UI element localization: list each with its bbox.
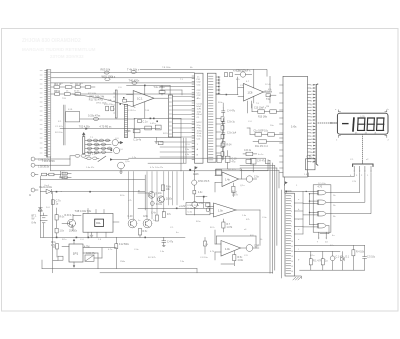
label IC102 <box>248 90 253 94</box>
wire rail y179.5 <box>40 179 145 181</box>
resistor R105 on bus 2 <box>105 78 110 81</box>
resistor R150 vertical <box>204 237 207 254</box>
wire CN2 pin1 down-left <box>308 173 354 177</box>
svg-text:9: 9 <box>291 236 292 238</box>
input jack P4 <box>31 188 38 192</box>
svg-text:C.0x 1u4: C.0x 1u4 <box>227 133 237 135</box>
svg-text:0Rnd: 0Rnd <box>197 114 203 116</box>
capacitor C205 <box>222 119 225 127</box>
diode D101 <box>40 189 61 193</box>
label box above QA <box>257 161 266 163</box>
wire y208.3 <box>138 208 213 210</box>
opamp IC101a wires <box>127 85 169 118</box>
small comps below box <box>158 141 163 144</box>
svg-text:2SA10x: 2SA10x <box>69 229 78 232</box>
junction dots input <box>120 97 125 105</box>
svg-text:R.10x: R.10x <box>156 204 163 206</box>
svg-text:C.47u: C.47u <box>167 242 174 244</box>
transistor QA <box>246 176 256 182</box>
bottom right rail top <box>294 245 364 270</box>
box pair lower <box>243 152 257 155</box>
wires V101 to ST1 <box>173 97 195 138</box>
resistor F112 <box>115 237 118 268</box>
input jack P3 <box>31 172 38 176</box>
vertical x52.7 <box>52 192 54 273</box>
opamp A triangle <box>222 172 239 187</box>
fuse F101 <box>70 154 90 157</box>
svg-text:R1x 47k C.4: R1x 47k C.4 <box>255 146 268 148</box>
bracket right of U1 <box>316 84 318 165</box>
label C206 <box>227 133 237 135</box>
box IC6 near U1 bottom <box>306 159 316 170</box>
label IC101a <box>137 96 143 100</box>
opamp C wires <box>215 230 246 260</box>
label IC6 <box>307 156 313 159</box>
label Q4 <box>199 203 204 205</box>
capacitor C110 top <box>225 73 233 77</box>
label C107 <box>56 200 62 206</box>
svg-text:R.9 10x: R.9 10x <box>55 132 63 134</box>
svg-text:1.02 20.5x: 1.02 20.5x <box>38 166 50 169</box>
wires step into strips upper <box>160 87 195 96</box>
label C32 <box>367 257 376 259</box>
IC103 inner box <box>95 219 104 226</box>
capacitor C143 below rail <box>162 237 166 246</box>
label F112 <box>119 244 130 246</box>
resistor R33 vertical <box>352 245 355 270</box>
svg-text:MARGAIG TIUDRID RETEMITLUM: MARGAIG TIUDRID RETEMITLUM <box>22 47 96 52</box>
resistor R143 vertical <box>138 229 141 238</box>
J2 left rail <box>282 177 285 278</box>
svg-text:13: 13 <box>291 256 293 258</box>
svg-text:C.4 47u: C.4 47u <box>227 111 236 113</box>
resistor R121 <box>266 94 276 97</box>
DS1 minus sign <box>343 123 348 125</box>
svg-text:1O0u: 1O0u <box>197 130 203 132</box>
vertical feed x223 <box>222 103 224 160</box>
xor gate G4 <box>314 223 329 228</box>
DS1 corner labels <box>335 109 390 142</box>
rail y268.6 <box>42 260 197 273</box>
opamp B wires <box>208 206 260 245</box>
box above QA <box>251 159 257 173</box>
label C204 <box>227 111 236 113</box>
opamp IC102 triangle <box>244 84 264 102</box>
svg-text:2OuL: 2OuL <box>197 133 203 135</box>
svg-text:1C.4x: 1C.4x <box>265 84 272 86</box>
label top mid <box>236 70 251 73</box>
U1 right pin arrowheads <box>313 84 316 162</box>
vertical through Q3 Q4 <box>193 171 195 215</box>
DS1 digit 1 <box>352 118 355 131</box>
resistor row lower left <box>133 130 140 133</box>
svg-text:F.5kΩ 1.04x: F.5kΩ 1.04x <box>188 205 201 207</box>
svg-text:F.12 500x: F.12 500x <box>119 244 130 246</box>
label RB <box>232 192 238 197</box>
xor gate G3 <box>314 211 331 216</box>
wire dotted bracket to display <box>318 122 337 124</box>
svg-text:C.N: C.N <box>352 181 356 183</box>
svg-text:1C6: 1C6 <box>248 90 253 94</box>
vertical drops from rail y171 <box>129 172 184 220</box>
label cluster1 <box>254 108 268 119</box>
resistor on input <box>123 99 127 102</box>
wire opamp C loop <box>217 236 257 266</box>
vertical x145.2 <box>144 175 146 210</box>
component row A (top-left) resistor chain <box>51 86 95 89</box>
CN2 pin arrowheads <box>354 171 372 173</box>
label C143 <box>167 242 174 244</box>
junction dot above opamp <box>144 85 146 87</box>
label IC5 <box>318 187 323 189</box>
junction blob rail <box>189 169 191 171</box>
junction dots xor inputs <box>285 191 310 214</box>
svg-text:1.0x: 1.0x <box>225 248 230 251</box>
svg-text:Q.10x: Q.10x <box>166 198 173 200</box>
wire y191.7 with junctions <box>56 191 146 193</box>
label RD <box>238 257 244 262</box>
junction dot x203.7 <box>196 196 207 209</box>
J2 right stubs <box>294 191 303 234</box>
resistor R140 vertical <box>161 185 164 191</box>
capacitor C206 <box>222 130 225 138</box>
label C142 <box>167 214 172 216</box>
label row lower left <box>126 131 142 142</box>
svg-text:R.50x 1.0x: R.50x 1.0x <box>188 208 199 210</box>
label rail <box>59 177 69 180</box>
ST1 pin name rows <box>197 76 203 156</box>
U1 right pin labels <box>311 85 315 164</box>
resistors below opamp A <box>232 183 235 197</box>
wire dotted display to connector <box>362 134 364 161</box>
svg-text:4.7x 1.0x 47x: 4.7x 1.0x 47x <box>150 167 164 169</box>
label Q2 <box>166 198 173 200</box>
svg-text:1C 4.0x: 1C 4.0x <box>318 183 326 185</box>
transistor Q103 <box>112 140 123 146</box>
connector J101 left edge strip <box>40 70 51 157</box>
resistor inside box 2 <box>145 126 152 130</box>
svg-text:1.07k: 1.07k <box>227 227 233 229</box>
svg-text:R.04: R.04 <box>227 145 233 147</box>
svg-text:R.50 470.5: R.50 470.5 <box>198 181 210 183</box>
svg-text:16: 16 <box>291 271 293 273</box>
label C140 <box>156 204 163 206</box>
svg-text:C.02 47u: C.02 47u <box>86 253 96 255</box>
DS1 digit 8 (tens) <box>367 118 374 130</box>
svg-text:1uRb: 1uRb <box>193 173 199 176</box>
svg-text:Ow.4: Ow.4 <box>44 185 50 187</box>
svg-text:R11 T03 470x: R11 T03 470x <box>89 100 104 102</box>
svg-text:R.1 4.7k: R.1 4.7k <box>313 261 322 263</box>
J2 flag <box>285 182 288 186</box>
svg-text:T 4b 10k x: T 4b 10k x <box>127 67 140 71</box>
svg-text:T40 470x: T40 470x <box>129 79 141 83</box>
bus bar V103 <box>114 90 118 118</box>
label R105 <box>102 74 116 78</box>
svg-text:C.5x: C.5x <box>307 156 313 159</box>
LCD display DS1 <box>337 113 388 134</box>
connector strip ST2 <box>207 73 216 162</box>
transistor Q104 <box>114 148 120 154</box>
IC104 box <box>69 244 83 262</box>
svg-text:C.05 1u: C.05 1u <box>128 110 136 112</box>
IC U1 A/D converter body <box>283 76 308 177</box>
label P4 <box>29 194 31 197</box>
switch S101 row <box>85 156 106 161</box>
label left of Q1 <box>138 191 140 193</box>
resistor R31 vertical <box>309 252 312 271</box>
label R32 <box>325 261 328 263</box>
svg-text:C.1u: C.1u <box>143 121 149 123</box>
svg-text:C1x 100P 10u: C1x 100P 10u <box>254 130 269 132</box>
label F101 <box>88 153 97 156</box>
label R104 <box>127 67 140 71</box>
svg-text:1.4x: 1.4x <box>225 179 230 182</box>
transistor QC <box>246 245 259 252</box>
TB1 text rows <box>188 205 201 213</box>
svg-text:Q.10x: Q.10x <box>156 193 163 195</box>
connector J2 bottom right strip <box>285 193 294 276</box>
battery BT1 <box>40 213 47 237</box>
zener ZD1 <box>39 208 43 211</box>
transistor Q3 small <box>192 180 197 185</box>
rail y237.4 <box>40 237 185 239</box>
svg-text:C1P: C1P <box>197 90 202 92</box>
labels row B <box>54 91 105 102</box>
IC104 bottom pin <box>73 262 75 268</box>
resistor column right of ST2 <box>221 117 224 160</box>
wire CN2 pin4 to xor3 <box>331 173 371 214</box>
resistor chain row 2 <box>85 143 111 146</box>
transistor Q107 <box>62 216 81 232</box>
svg-text:CNb: CNb <box>287 191 292 193</box>
J2 pin number text column <box>291 196 293 273</box>
U1 right pin stubs <box>308 85 311 162</box>
label below ST1 <box>193 173 199 176</box>
vertical x40.4 low <box>39 213 41 237</box>
main rail upper y158.2 <box>129 158 266 163</box>
label IC103 <box>75 210 102 225</box>
opamp A wires feedback <box>215 151 247 193</box>
label R33 <box>356 252 365 254</box>
svg-text:+1.2V: +1.2V <box>179 205 186 208</box>
connector strip ST1 <box>192 73 203 163</box>
opamp B triangle <box>214 203 237 217</box>
transistor Q106a <box>143 219 152 228</box>
capacitor C103 pair <box>106 106 114 111</box>
resistor row P3 path <box>42 171 65 178</box>
wires opamp area verticals <box>248 76 271 113</box>
xor inputs from bus <box>286 191 314 227</box>
assorted value labels <box>46 67 369 263</box>
box lower2 <box>246 160 252 164</box>
svg-text:R.15: R.15 <box>163 133 168 135</box>
svg-text:C.1x 4u: C.1x 4u <box>133 140 142 142</box>
svg-text:T.08 C.04x 7.6x: T.08 C.04x 7.6x <box>75 210 92 213</box>
label R106 <box>129 79 141 83</box>
wires into ST1 lower left <box>160 142 195 157</box>
svg-text:1.0x: 1.0x <box>218 209 223 212</box>
svg-text:R11 470x: R11 470x <box>104 104 114 106</box>
svg-text:R03 10k: R03 10k <box>101 68 111 72</box>
IC5 bottom labels <box>317 242 328 244</box>
XOR block IC5 box <box>313 185 331 232</box>
svg-text:bF1C: bF1C <box>197 122 203 124</box>
junction dots row inside box <box>150 118 158 123</box>
label C105 <box>88 115 101 118</box>
resistor inside box 1 <box>138 120 142 123</box>
svg-text:2: 2 <box>291 201 292 203</box>
feedback resistor RA <box>225 156 230 162</box>
resistor R laux left of opamp B <box>206 203 210 212</box>
svg-text:15: 15 <box>291 266 293 268</box>
capacitor C107 <box>51 200 54 205</box>
opamp IC101a triangle <box>133 91 154 106</box>
bus bends into rails top <box>240 160 279 171</box>
wires IC104 area <box>53 246 117 268</box>
arrow into wire y159.5 <box>110 158 129 160</box>
svg-text:Cmn1: Cmn1 <box>197 103 203 105</box>
svg-text:C.R: C.R <box>240 85 244 87</box>
label IC104 <box>73 246 90 256</box>
svg-text:0.4x: 0.4x <box>32 222 37 225</box>
box with diagonal CX <box>85 255 94 261</box>
label CX <box>86 253 96 255</box>
transistor Q105 <box>118 162 125 173</box>
svg-text:4.70 R0 xx: 4.70 R0 xx <box>99 125 112 128</box>
svg-text:R.30 4.7k: R.30 4.7k <box>65 215 76 217</box>
wire CN2 pin2 to xor1 <box>331 173 360 193</box>
svg-text:Ω: Ω <box>29 194 31 197</box>
svg-text:5: 5 <box>291 216 292 218</box>
connector CN2 below display <box>353 162 373 167</box>
ghost print-through text <box>22 38 96 59</box>
wire top bus 1 <box>51 72 195 74</box>
main rail lower y170.8 <box>51 157 268 171</box>
IC103 pins <box>88 208 119 237</box>
wire top bus 2 <box>51 77 195 79</box>
label box pair lower <box>244 150 252 152</box>
label above opamp <box>153 86 165 89</box>
bus bar vertical V101 <box>168 95 172 137</box>
DS1 decimal labels <box>355 133 377 135</box>
wire into display left <box>330 122 337 123</box>
svg-text:1.0x 47x: 1.0x 47x <box>86 167 95 169</box>
wire top bus 3 <box>51 82 195 84</box>
svg-text:4.70: 4.70 <box>318 187 323 189</box>
label R130 <box>60 217 66 233</box>
resistor R204 <box>222 142 225 147</box>
svg-text:10: 10 <box>291 241 293 243</box>
network box around opamp lower <box>134 118 181 171</box>
svg-text:T.B 100x: T.B 100x <box>162 67 171 69</box>
label Q107 <box>65 215 78 232</box>
label opamp B <box>218 209 223 212</box>
label C31 <box>336 257 345 259</box>
svg-text:9V: 9V <box>32 218 35 221</box>
svg-text:4: 4 <box>291 211 292 213</box>
svg-text:C.1 47u: C.1 47u <box>55 126 63 128</box>
capacitor column C group <box>222 108 225 116</box>
svg-text:1.07x: 1.07x <box>232 194 238 196</box>
junction dot <box>110 149 112 151</box>
label P2 <box>38 166 50 169</box>
resistor R106 on bus 3 <box>132 81 137 84</box>
resistor pair to U1 pin (cluster1) <box>252 104 283 113</box>
IC104 top pin with arrow <box>73 239 75 244</box>
resistor row P3 boxes2 <box>62 172 71 178</box>
ground arrow below IC103 <box>90 232 93 237</box>
capacitor C32 <box>363 245 367 270</box>
label Q3 <box>198 181 210 183</box>
resistor R103 on bus 1 <box>104 71 109 74</box>
svg-text:1P1: 1P1 <box>73 251 79 255</box>
resistor R131 vertical <box>55 228 58 237</box>
box below ST2 <box>216 170 222 176</box>
label T102 <box>79 125 112 128</box>
svg-text:7: 7 <box>291 226 292 228</box>
arrow pins right of ST2 <box>216 76 221 94</box>
svg-text:C.R 47u: C.R 47u <box>257 161 266 163</box>
xor gate G2 <box>314 200 331 205</box>
diode D31 <box>341 252 344 271</box>
label J2 top <box>287 191 292 193</box>
resistor R133 <box>56 244 59 257</box>
transistor Q105a <box>128 219 137 228</box>
wire y94.6 ST2 to opamp <box>216 94 238 96</box>
svg-text:4u 1x: 4u 1x <box>258 154 264 156</box>
svg-text:C10 10uF x: C10 10uF x <box>254 108 267 110</box>
junction arrow on bus <box>85 128 88 130</box>
capacitor C140 oval <box>151 201 155 206</box>
svg-text:T02 4.05x: T02 4.05x <box>79 125 91 128</box>
label +1.2 <box>179 205 186 208</box>
svg-text:C.0x 1u: C.0x 1u <box>227 122 236 124</box>
verticals right of network box <box>148 138 186 163</box>
svg-text:11: 11 <box>291 246 293 248</box>
DS1 corner ticks <box>339 110 387 138</box>
label R141 <box>198 192 203 194</box>
svg-text:1C.1: 1C.1 <box>137 96 143 100</box>
CN2 pins <box>354 166 371 171</box>
label R31 <box>313 261 322 263</box>
svg-text:C.10: C.10 <box>232 159 238 161</box>
svg-text:1C.0: 1C.0 <box>185 144 190 146</box>
svg-text:0.33u 47xx: 0.33u 47xx <box>88 115 101 118</box>
transistor Q1 <box>148 191 155 198</box>
svg-text:1uF1: 1uF1 <box>197 109 203 111</box>
vertical x40.4 <box>39 176 41 213</box>
svg-text:6: 6 <box>291 221 292 223</box>
label Q1 <box>156 193 163 195</box>
DS1 top tiny label <box>361 116 366 118</box>
input jack P2 <box>31 159 70 167</box>
opamp C triangle <box>221 241 241 257</box>
top wire to opamp IC102 <box>140 69 267 76</box>
svg-text:12: 12 <box>291 251 293 253</box>
capacitor C104 above opamp <box>145 85 170 95</box>
IC5 bottom stubs <box>318 232 326 239</box>
J2 pin rungs <box>286 196 291 273</box>
label RC <box>227 224 233 229</box>
transistor Q4 <box>192 202 198 208</box>
DS1 digit 8 (units) <box>377 118 384 130</box>
svg-text:23TOM 3DIVR32: 23TOM 3DIVR32 <box>50 54 84 59</box>
DS1 digit 8 (hundreds) <box>358 118 365 130</box>
text block box TB1 <box>186 203 210 215</box>
svg-text:C.9R: C.9R <box>254 245 260 247</box>
label R140 <box>166 187 172 192</box>
